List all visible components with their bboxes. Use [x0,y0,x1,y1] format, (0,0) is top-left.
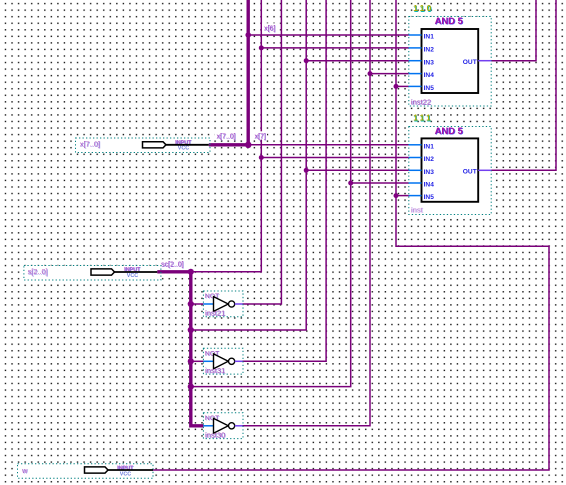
junction s1 / AND2 IN3 [304,168,309,173]
junction W / AND2 IN5 [394,193,399,198]
NOT gate inst21 [203,291,243,318]
junction s bus / s0 [188,384,194,390]
wire net x[7] to AND2 IN1 [248,144,409,146]
wire NOT2 input from s bus [191,360,204,362]
svg-text:AND 5: AND 5 [435,15,463,26]
AND gate U1 inst22 (select 110) [409,3,491,107]
output stub [235,425,243,427]
junction x bus / x[6] [245,32,251,38]
junction s1 / AND1 IN3 [304,58,309,63]
svg-text:sc[2..0]: sc[2..0] [161,262,184,269]
junction s0 / AND2 IN4 [348,181,353,186]
wire net s0n from NOT3 output [243,0,371,426]
junction s bus / s1 [188,327,194,333]
input pin x[7..0] [76,138,211,153]
junction W / AND1 IN5 [394,84,399,89]
junction s bus / NOT2 input [188,358,194,364]
wire x bus x[7..0] (thick) [209,0,248,145]
pin stub IN4 [409,182,422,184]
wire net s0 vertical [191,0,351,387]
NOT gate inst31 [203,348,243,375]
input stub [203,303,213,305]
wire net s0n branch to AND1 IN4 [370,73,409,75]
bubble [229,423,235,429]
wire net W long route [153,0,549,470]
wire AND2 output net [491,0,556,170]
wire net s2 branch to AND1 IN2 [261,47,409,49]
wire net s2 vertical [191,0,261,272]
svg-text:111: 111 [413,113,433,123]
wire net s1 branch to AND1 IN3 [306,60,409,62]
pin stub OUT [478,60,491,62]
svg-text:IN1: IN1 [424,34,435,41]
pin stub IN3 [409,60,422,62]
svg-text:s[2..0]: s[2..0] [28,267,48,276]
svg-text:VCC: VCC [120,471,131,477]
svg-text:x[7]: x[7] [255,133,266,140]
label wire x[7] [253,131,268,139]
selection box white backgrounds [18,17,492,479]
input pin w [18,464,154,479]
pin stub IN2 [409,47,422,49]
svg-text:x[6]: x[6] [264,26,275,33]
input stub [203,425,213,427]
svg-text:IN5: IN5 [424,194,435,201]
svg-text:inst31: inst31 [205,366,225,375]
junction x bus / x[7] [245,142,252,149]
svg-text:OUT: OUT [463,59,477,66]
AND gate U2 inst23 (select 111) [409,113,491,215]
svg-text:IN5: IN5 [424,85,435,92]
svg-text:inst22: inst22 [411,98,431,107]
wire net s0 branch to AND2 IN4 [351,182,409,184]
svg-text:AND 5: AND 5 [435,125,463,136]
svg-text:IN3: IN3 [424,169,435,176]
wire net x[6] to AND1 IN1 [248,34,409,36]
pin stub IN2 [409,157,422,159]
svg-text:IN4: IN4 [424,72,435,79]
svg-text:IN2: IN2 [424,47,435,54]
svg-text:IN4: IN4 [424,182,435,189]
wire net s2 branch to AND2 IN2 [261,157,409,159]
svg-text:w: w [21,466,28,475]
wire net W branch to AND2 IN5 [396,195,409,197]
wire s bus sc[2..0] (thick) [157,272,203,426]
junction s2 / AND2 IN2 [259,155,264,160]
svg-text:IN3: IN3 [424,59,435,66]
svg-text:VCC: VCC [178,146,189,152]
label wire x[7..0] [215,131,242,139]
output stub [235,360,243,362]
output stub [235,303,243,305]
junction s bus / s2 [188,269,194,275]
wire NOT1 input from s bus [191,303,204,305]
junction s bus / NOT1 input [188,301,194,307]
pin stub IN4 [409,73,422,75]
junction s2 / AND1 IN2 [259,45,264,50]
NOT gate inst30 [203,413,243,440]
wire AND1 output net [491,0,536,61]
svg-text:OUT: OUT [463,169,477,176]
input stub [203,360,213,362]
wire net s1 branch to AND2 IN3 [306,169,409,171]
junction s0n / AND1 IN4 [368,71,373,76]
wire net s1 vertical [191,0,306,330]
pin stub IN5 [409,195,422,197]
pin stub IN1 [409,144,422,146]
pin stub IN3 [409,169,422,171]
pin stub IN5 [409,85,422,87]
bubble [229,301,235,307]
svg-text:inst21: inst21 [205,309,225,318]
svg-text:x[7..0]: x[7..0] [217,133,236,140]
wire net s2n from NOT1 output [243,0,282,304]
svg-text:inst: inst [411,205,424,214]
svg-text:IN1: IN1 [424,143,435,150]
label wire sc[2..0] [160,259,192,267]
triangle [214,297,229,312]
svg-text:x[7..0]: x[7..0] [80,140,100,149]
pin stub OUT [478,169,491,171]
label wire x[6] [262,23,278,31]
pin stub IN1 [409,34,422,36]
triangle [214,354,229,369]
svg-text:inst30: inst30 [205,430,225,439]
svg-text:IN2: IN2 [424,156,435,163]
triangle [214,418,229,433]
wire net W branch to AND1 IN5 [396,85,409,87]
wire net s1n from NOT2 output [243,0,327,361]
bubble [229,358,235,364]
input pin s[2..0] [24,266,161,281]
svg-text:110: 110 [413,3,433,13]
svg-text:VCC: VCC [127,273,138,279]
